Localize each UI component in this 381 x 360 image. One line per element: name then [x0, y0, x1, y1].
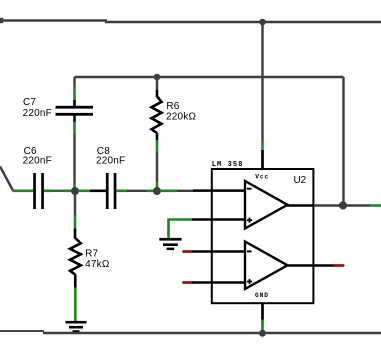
ground symbol below R7 — [66, 321, 87, 333]
svg-text:C7: C7 — [23, 97, 36, 108]
IC U2 LM358 box — [212, 169, 314, 303]
wire C6 right lead — [44, 190, 73, 193]
junction dot rail-R6 — [154, 74, 161, 81]
wire input diagonal left — [0, 167, 13, 191]
capacitor C8 — [106, 173, 116, 209]
svg-text:Vcc: Vcc — [255, 173, 269, 180]
pin Vcc stub U2 — [261, 150, 264, 170]
wire bottom rail left thin — [0, 330, 44, 332]
wire second rail y77 — [75, 76, 344, 78]
op-amp U2B triangle — [245, 242, 288, 290]
svg-text:47kΩ: 47kΩ — [85, 259, 110, 270]
wire R7 top — [74, 191, 76, 239]
junction dot C6-C7-C8-R7 node — [71, 187, 79, 195]
capacitor C6 — [33, 173, 44, 209]
wire opamp2 output (unconnected) — [287, 264, 343, 267]
wire R7 bottom — [74, 275, 77, 322]
svg-text:R7: R7 — [85, 248, 98, 259]
op-amp U2B plus marker — [247, 279, 252, 284]
junction dot opamp1 output node — [339, 201, 347, 209]
ground symbol left — [159, 238, 181, 250]
wire C6 left lead — [13, 190, 34, 193]
resistor R6 leads — [156, 77, 158, 98]
resistor R7 zigzag — [70, 238, 81, 275]
capacitor C7 — [56, 106, 94, 116]
wire opamp1 non-inverting input — [169, 218, 246, 221]
op-amp U2B minus marker — [247, 250, 252, 252]
junction dot C8-R6-opamp node — [153, 187, 161, 195]
svg-text:R6: R6 — [166, 101, 179, 112]
op-amp U2A plus marker — [247, 218, 252, 223]
svg-text:LM 358: LM 358 — [212, 161, 244, 169]
svg-text:U2: U2 — [294, 175, 307, 186]
wire C7 top vertical — [73, 77, 75, 107]
wire top rail right segment — [105, 21, 381, 23]
wire opamp2 non-inverting input (unconnected) — [184, 281, 246, 284]
svg-text:220nF: 220nF — [23, 108, 52, 119]
wire opamp1 inverting input — [160, 189, 245, 192]
wire Vcc vertical — [261, 22, 263, 151]
svg-text:GND: GND — [255, 292, 269, 299]
op-amp U2A triangle — [245, 181, 288, 229]
wire bottom rail main — [43, 332, 381, 335]
wire C8 right lead — [117, 190, 155, 193]
resistor R6 zigzag — [152, 97, 162, 134]
wire C8 left lead — [78, 190, 106, 193]
svg-text:220kΩ: 220kΩ — [166, 111, 196, 122]
wire opamp2 inverting input (unconnected) — [184, 250, 246, 253]
pin GND stub U2 — [261, 303, 264, 331]
svg-text:220nF: 220nF — [23, 155, 52, 166]
wire C7 bottom vertical — [73, 116, 76, 191]
svg-text:220nF: 220nF — [96, 155, 125, 166]
wire R6 bottom — [156, 133, 159, 190]
wire opamp1 output — [287, 204, 381, 207]
wire top rail left segment — [0, 18, 107, 23]
op-amp U2A minus marker — [247, 188, 252, 190]
wire ground2 vertical — [167, 219, 170, 239]
junction dot bottom rail GND — [259, 330, 266, 337]
junction dot Vcc rail — [259, 19, 266, 26]
wire feedback vertical right — [342, 77, 344, 206]
